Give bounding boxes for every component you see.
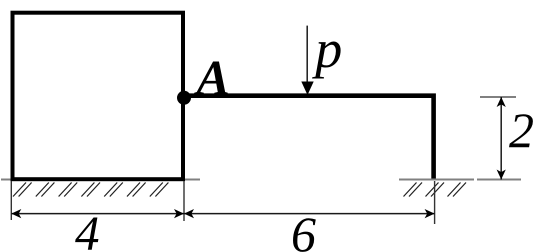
dimension 4: extension line left (10, 181, 12, 220)
svg-text:4: 4 (75, 206, 100, 252)
dimension 2: bottom arrowhead (497, 170, 506, 180)
column (left square block) (13, 13, 184, 180)
dimension 4: line (11, 213, 184, 215)
load arrow P shaft (306, 26, 308, 83)
dimension 6: extension line at right support (434, 181, 436, 224)
svg-text:2: 2 (509, 102, 534, 158)
dimension 4: left arrowhead (11, 209, 21, 218)
ground hatching right (404, 183, 467, 197)
svg-text:6: 6 (291, 206, 316, 252)
dimension 4: right arrowhead (174, 209, 184, 218)
load arrow P head (301, 82, 313, 96)
dimension 2: line (500, 97, 502, 180)
dimension 2: top tick (480, 96, 516, 98)
dimension 2: top arrowhead (497, 97, 506, 107)
svg-text:p: p (311, 19, 342, 79)
dimension 6: right arrowhead (425, 209, 435, 218)
svg-text:A: A (194, 50, 230, 106)
dimension 6: line (184, 213, 435, 215)
dimension 6: left arrowhead (184, 209, 194, 218)
ground line left (1, 179, 200, 181)
ground line right (399, 179, 474, 181)
ground hatching left (13, 183, 168, 197)
beam from A to right end (184, 96, 434, 180)
dimension 2: bottom tick (477, 179, 521, 181)
dimension 4: extension line at A (183, 181, 185, 221)
node A (pin circle) (177, 91, 191, 105)
